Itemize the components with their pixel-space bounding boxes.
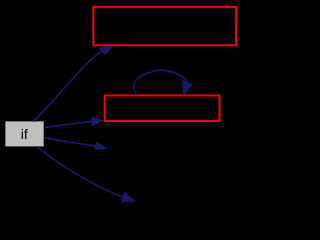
svg-text:if: if (21, 126, 28, 142)
